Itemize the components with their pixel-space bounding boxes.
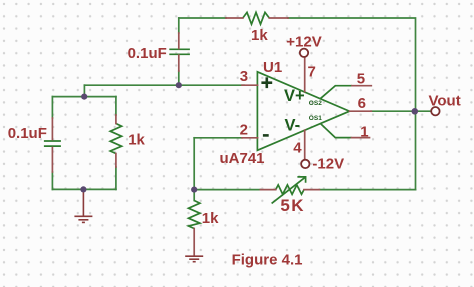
svg-text:-12V: -12V xyxy=(312,156,344,173)
svg-text:3: 3 xyxy=(240,68,248,85)
svg-text:1k: 1k xyxy=(128,132,145,149)
svg-text:7: 7 xyxy=(308,64,316,81)
svg-text:1: 1 xyxy=(360,123,368,140)
svg-text:1k: 1k xyxy=(251,27,268,44)
svg-text:Figure 4.1: Figure 4.1 xyxy=(232,251,303,268)
svg-text:uA741: uA741 xyxy=(220,150,265,167)
svg-text:4: 4 xyxy=(293,140,302,157)
svg-text:5: 5 xyxy=(357,70,365,87)
svg-text:V+: V+ xyxy=(284,87,305,105)
svg-text:1k: 1k xyxy=(202,210,219,227)
svg-text:0.1uF: 0.1uF xyxy=(128,45,167,62)
svg-text:2: 2 xyxy=(240,122,248,139)
svg-text:U1: U1 xyxy=(263,59,282,76)
svg-text:OS2: OS2 xyxy=(309,100,322,107)
svg-text:V-: V- xyxy=(285,116,301,134)
svg-text:OS1: OS1 xyxy=(309,115,322,122)
svg-text:5K: 5K xyxy=(280,196,305,215)
svg-text:0.1uF: 0.1uF xyxy=(8,125,47,142)
svg-text:+12V: +12V xyxy=(286,33,321,50)
svg-text:6: 6 xyxy=(358,95,366,112)
svg-text:Vout: Vout xyxy=(429,93,461,110)
